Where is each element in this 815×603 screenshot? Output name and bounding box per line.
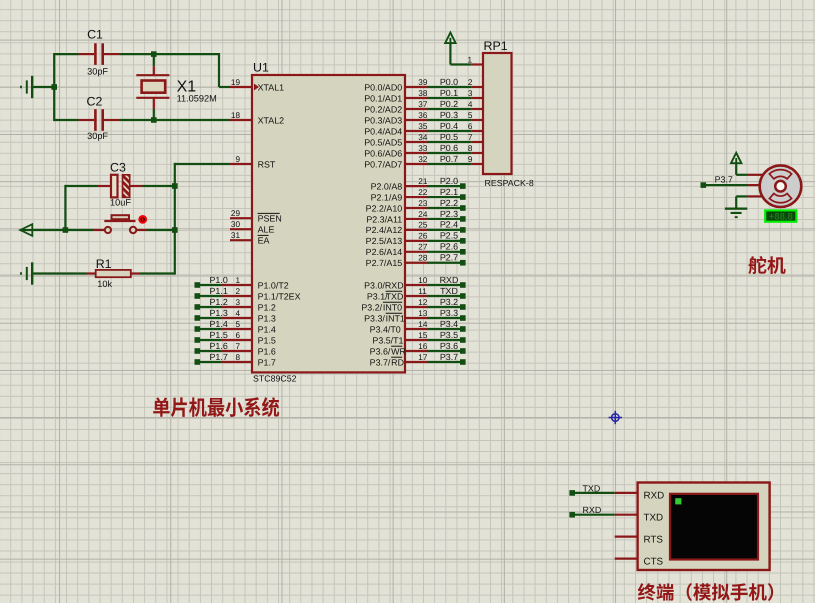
svg-text:P1.4: P1.4 bbox=[210, 319, 228, 329]
svg-text:5: 5 bbox=[468, 111, 473, 120]
svg-text:P2.7: P2.7 bbox=[440, 253, 458, 263]
svg-text:16: 16 bbox=[418, 342, 428, 351]
svg-text:P0.5: P0.5 bbox=[440, 132, 458, 142]
svg-text:C3: C3 bbox=[110, 161, 126, 175]
svg-text:TXD: TXD bbox=[644, 513, 664, 524]
svg-text:P1.2: P1.2 bbox=[210, 297, 228, 307]
svg-text:TXD: TXD bbox=[583, 483, 601, 493]
svg-text:P0.3/AD3: P0.3/AD3 bbox=[364, 115, 402, 125]
svg-text:P0.7: P0.7 bbox=[440, 154, 458, 164]
svg-text:24: 24 bbox=[418, 210, 428, 219]
svg-text:INT1: INT1 bbox=[386, 313, 405, 323]
svg-text:32: 32 bbox=[418, 155, 428, 164]
svg-text:P3.4: P3.4 bbox=[440, 319, 458, 329]
svg-text:P2.2: P2.2 bbox=[440, 198, 458, 208]
svg-text:27: 27 bbox=[418, 243, 428, 252]
svg-text:P3.3: P3.3 bbox=[440, 308, 458, 318]
svg-text:3: 3 bbox=[468, 89, 473, 98]
svg-text:13: 13 bbox=[418, 309, 428, 318]
svg-text:15: 15 bbox=[418, 331, 428, 340]
svg-text:P1.5: P1.5 bbox=[210, 330, 228, 340]
svg-text:P2.5: P2.5 bbox=[440, 231, 458, 241]
svg-text:P1.3: P1.3 bbox=[258, 313, 276, 323]
svg-text:P3.2/: P3.2/ bbox=[361, 302, 382, 312]
svg-text:P3.5: P3.5 bbox=[440, 330, 458, 340]
svg-text:P1.1: P1.1 bbox=[210, 286, 228, 296]
svg-text:RST: RST bbox=[258, 159, 276, 169]
svg-text:STC89C52: STC89C52 bbox=[253, 374, 297, 384]
svg-text:P1.5: P1.5 bbox=[258, 335, 276, 345]
svg-text:P1.4: P1.4 bbox=[258, 324, 276, 334]
svg-text:XTAL2: XTAL2 bbox=[258, 115, 285, 125]
svg-text:P2.4: P2.4 bbox=[440, 220, 458, 230]
svg-text:P2.3/A11: P2.3/A11 bbox=[366, 214, 402, 224]
svg-text:30pF: 30pF bbox=[87, 66, 108, 76]
svg-text:18: 18 bbox=[231, 111, 241, 120]
svg-text:P0.7/AD7: P0.7/AD7 bbox=[364, 159, 402, 169]
svg-text:26: 26 bbox=[418, 232, 428, 241]
svg-text:P3.7: P3.7 bbox=[440, 352, 458, 362]
svg-text:6: 6 bbox=[468, 122, 473, 131]
svg-text:P1.3: P1.3 bbox=[210, 308, 228, 318]
svg-text:9: 9 bbox=[468, 155, 473, 164]
svg-text:RXD: RXD bbox=[583, 505, 602, 515]
svg-text:P1.0/T2: P1.0/T2 bbox=[258, 280, 289, 290]
svg-text:P3.4/T0: P3.4/T0 bbox=[370, 324, 401, 334]
svg-text:R1: R1 bbox=[96, 257, 112, 271]
svg-text:39: 39 bbox=[418, 78, 428, 87]
svg-text:EA: EA bbox=[258, 236, 270, 246]
svg-text:1: 1 bbox=[235, 276, 240, 285]
svg-text:RXD: RXD bbox=[440, 275, 459, 285]
svg-text:3: 3 bbox=[235, 298, 240, 307]
svg-text:P1.6: P1.6 bbox=[258, 346, 276, 356]
svg-text:P0.0: P0.0 bbox=[440, 77, 458, 87]
svg-text:WR: WR bbox=[391, 346, 406, 356]
svg-text:P0.6/AD6: P0.6/AD6 bbox=[364, 148, 402, 158]
svg-text:1: 1 bbox=[468, 55, 473, 64]
svg-text:P2.1: P2.1 bbox=[440, 187, 458, 197]
svg-text:30: 30 bbox=[231, 220, 241, 229]
svg-text:P1.0: P1.0 bbox=[210, 275, 228, 285]
svg-text:10uF: 10uF bbox=[110, 198, 131, 208]
svg-text:P1.7: P1.7 bbox=[258, 357, 276, 367]
svg-text:TXD: TXD bbox=[386, 291, 404, 301]
svg-text:RP1: RP1 bbox=[484, 39, 508, 53]
svg-text:31: 31 bbox=[231, 231, 241, 240]
svg-text:P0.4/AD4: P0.4/AD4 bbox=[364, 126, 402, 136]
svg-text:7: 7 bbox=[235, 342, 240, 351]
svg-text:P3.2: P3.2 bbox=[440, 297, 458, 307]
svg-text:U1: U1 bbox=[253, 61, 269, 75]
svg-text:RESPACK-8: RESPACK-8 bbox=[485, 178, 534, 188]
svg-text:5: 5 bbox=[235, 320, 240, 329]
svg-text:P2.1/A9: P2.1/A9 bbox=[371, 192, 403, 202]
svg-text:P3.7: P3.7 bbox=[715, 174, 733, 184]
svg-text:25: 25 bbox=[418, 221, 428, 230]
svg-text:P2.6: P2.6 bbox=[440, 242, 458, 252]
svg-text:P0.1/AD1: P0.1/AD1 bbox=[364, 93, 402, 103]
svg-text:10k: 10k bbox=[97, 279, 112, 289]
svg-text:21: 21 bbox=[418, 177, 428, 186]
svg-text:35: 35 bbox=[418, 122, 428, 131]
svg-text:28: 28 bbox=[418, 254, 428, 263]
svg-text:PSEN: PSEN bbox=[258, 214, 282, 224]
svg-text:P0.2/AD2: P0.2/AD2 bbox=[364, 104, 402, 114]
svg-text:P1.1/T2EX: P1.1/T2EX bbox=[258, 291, 301, 301]
svg-text:INT0: INT0 bbox=[383, 302, 402, 312]
svg-text:P2.3: P2.3 bbox=[440, 209, 458, 219]
svg-text:P0.4: P0.4 bbox=[440, 121, 458, 131]
svg-text:P0.1: P0.1 bbox=[440, 88, 458, 98]
svg-text:RTS: RTS bbox=[644, 535, 664, 546]
svg-text:36: 36 bbox=[418, 111, 428, 120]
svg-text:P3.7/: P3.7/ bbox=[370, 357, 391, 367]
svg-text:C2: C2 bbox=[87, 95, 103, 109]
svg-text:4: 4 bbox=[235, 309, 240, 318]
svg-text:P0.6: P0.6 bbox=[440, 143, 458, 153]
svg-text:33: 33 bbox=[418, 144, 428, 153]
svg-text:19: 19 bbox=[231, 78, 241, 87]
svg-text:TXD: TXD bbox=[440, 286, 458, 296]
svg-text:34: 34 bbox=[418, 133, 428, 142]
svg-text:P0.2: P0.2 bbox=[440, 99, 458, 109]
svg-text:P0.5/AD5: P0.5/AD5 bbox=[364, 137, 402, 147]
svg-text:P0.0/AD0: P0.0/AD0 bbox=[364, 82, 402, 92]
svg-text:P3.3/: P3.3/ bbox=[364, 313, 385, 323]
svg-text:4: 4 bbox=[468, 100, 473, 109]
svg-text:P3.0/RXD: P3.0/RXD bbox=[364, 280, 403, 290]
svg-text:P0.3: P0.3 bbox=[440, 110, 458, 120]
svg-text:ALE: ALE bbox=[258, 225, 275, 235]
svg-text:11.0592M: 11.0592M bbox=[177, 93, 217, 103]
svg-text:P3.6/: P3.6/ bbox=[370, 346, 391, 356]
svg-text:CTS: CTS bbox=[644, 557, 664, 568]
svg-text:2: 2 bbox=[468, 78, 473, 87]
svg-text:29: 29 bbox=[231, 209, 241, 218]
svg-text:XTAL1: XTAL1 bbox=[258, 82, 285, 92]
svg-text:C1: C1 bbox=[87, 28, 103, 42]
svg-text:P2.7/A15: P2.7/A15 bbox=[366, 258, 403, 268]
svg-text:17: 17 bbox=[418, 353, 428, 362]
svg-text:P3.6: P3.6 bbox=[440, 341, 458, 351]
svg-text:8: 8 bbox=[468, 144, 473, 153]
svg-text:9: 9 bbox=[235, 155, 240, 164]
svg-text:8: 8 bbox=[235, 353, 240, 362]
svg-text:6: 6 bbox=[235, 331, 240, 340]
svg-text:7: 7 bbox=[468, 133, 473, 142]
svg-text:30pF: 30pF bbox=[87, 131, 108, 141]
svg-text:P2.0/A8: P2.0/A8 bbox=[371, 181, 403, 191]
svg-text:+88.8: +88.8 bbox=[769, 211, 793, 222]
svg-text:12: 12 bbox=[418, 298, 428, 307]
svg-text:P2.4/A12: P2.4/A12 bbox=[366, 225, 403, 235]
svg-text:23: 23 bbox=[418, 199, 428, 208]
svg-text:10: 10 bbox=[418, 276, 428, 285]
svg-text:14: 14 bbox=[418, 320, 428, 329]
svg-text:P3.5/T1: P3.5/T1 bbox=[372, 335, 403, 345]
svg-text:P1.6: P1.6 bbox=[210, 341, 228, 351]
svg-text:P2.5/A13: P2.5/A13 bbox=[366, 236, 403, 246]
svg-text:2: 2 bbox=[235, 287, 240, 296]
svg-text:P2.0: P2.0 bbox=[440, 176, 458, 186]
svg-text:37: 37 bbox=[418, 100, 428, 109]
svg-text:P2.2/A10: P2.2/A10 bbox=[366, 203, 403, 213]
svg-text:P1.7: P1.7 bbox=[210, 352, 228, 362]
svg-text:P2.6/A14: P2.6/A14 bbox=[366, 247, 403, 257]
svg-text:38: 38 bbox=[418, 89, 428, 98]
svg-text:22: 22 bbox=[418, 188, 428, 197]
svg-text:RXD: RXD bbox=[644, 491, 665, 502]
svg-text:RD: RD bbox=[391, 357, 404, 367]
svg-text:11: 11 bbox=[418, 287, 427, 296]
svg-text:P1.2: P1.2 bbox=[258, 302, 276, 312]
